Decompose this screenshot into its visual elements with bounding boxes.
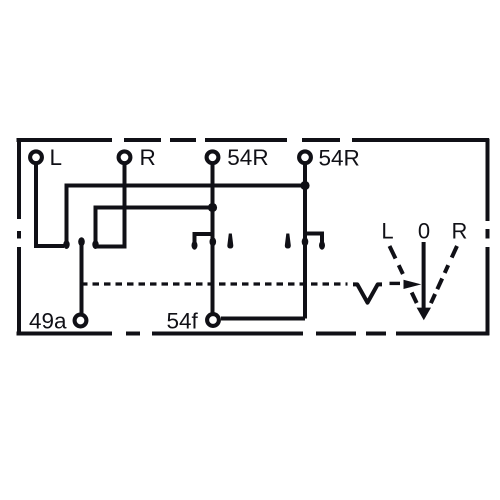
svg-text:R: R bbox=[452, 219, 468, 244]
terminal 54R (first) bbox=[207, 151, 219, 163]
svg-text:54f: 54f bbox=[167, 309, 199, 334]
svg-text:L: L bbox=[50, 145, 63, 170]
lever left position (dashed diagonal) bbox=[390, 246, 417, 303]
branch of 54R(first) wire to left fixed contact pin bbox=[195, 234, 213, 242]
fixed contact blob at end of R wire bbox=[92, 240, 98, 249]
wire riser from L fixed contact up to horizontal bus H1 and bus to 54R(second) drop bbox=[67, 186, 306, 246]
svg-text:0: 0 bbox=[418, 219, 430, 244]
svg-text:54R: 54R bbox=[319, 146, 360, 171]
contact bar dashes after notch bbox=[390, 282, 401, 285]
junction dot H1 x 54R(second) wire bbox=[300, 181, 309, 190]
svg-text:49a: 49a bbox=[29, 309, 67, 334]
wire riser from R fixed contact up to horizontal bus H2 and bus to 54R(first) drop bbox=[96, 208, 213, 246]
junction dot H2 x 54R(first) wire bbox=[208, 203, 217, 212]
fixed contact teardrop on branch bbox=[192, 241, 198, 250]
floating bridge contact pin (right of centre) bbox=[285, 234, 291, 249]
wire from terminal R down and left to fixed contact bbox=[97, 164, 125, 247]
svg-text:54R: 54R bbox=[227, 145, 268, 170]
contact bar arrowhead onto lever bbox=[404, 280, 422, 289]
terminal R bbox=[119, 151, 131, 163]
wire from terminal L down and right to fixed contact bbox=[36, 164, 64, 246]
movable contact bar (dashed) bbox=[81, 282, 348, 285]
wire from terminal 54R(first) straight down to terminal 54f bbox=[211, 164, 215, 313]
branch of 54R(second) wire to right fixed contact pin bbox=[305, 234, 322, 243]
moving contact pin of 49a with stem down to terminal 49a bbox=[80, 242, 84, 313]
lever right position (dashed diagonal) bbox=[431, 246, 457, 303]
fixed contact blob at end of L wire bbox=[63, 240, 69, 249]
wire from 54f terminal right side to 54R(second) stem bbox=[221, 317, 305, 321]
enclosure dashed border: top side bbox=[17, 138, 490, 142]
wire from terminal 54R(second) down to 54f horizontal bbox=[303, 164, 307, 319]
moving contact rivet on 54R(second)/54f stem bbox=[302, 237, 309, 246]
terminal 54R (second) bbox=[299, 151, 311, 163]
moving contact rivet on 54R(first)/54f stem bbox=[210, 237, 217, 246]
lever centre position arrow (solid) bbox=[422, 242, 426, 309]
floating bridge contact pin (left of centre) bbox=[227, 234, 233, 249]
svg-text:R: R bbox=[140, 145, 156, 170]
enclosure dashed border: left side bbox=[17, 139, 21, 336]
enclosure dashed border: right side bbox=[486, 139, 490, 336]
detent V notch in contact bar bbox=[353, 284, 382, 302]
svg-text:L: L bbox=[381, 219, 393, 244]
terminal 54f bbox=[207, 314, 219, 326]
fixed contact teardrop on branch bbox=[319, 241, 325, 250]
enclosure dashed border: bottom side bbox=[17, 332, 490, 336]
terminal 49a bbox=[75, 315, 87, 327]
terminal L bbox=[30, 151, 42, 163]
